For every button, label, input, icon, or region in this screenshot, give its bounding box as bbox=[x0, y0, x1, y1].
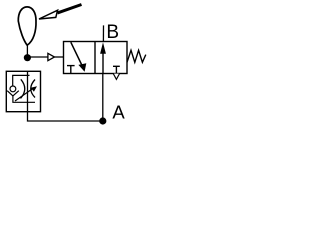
wire A from valve bottom to node A bbox=[102, 74, 104, 122]
check valve ball bbox=[10, 86, 16, 92]
node A junction dot bbox=[99, 117, 106, 124]
check-valve bypass branch top edge bbox=[13, 75, 30, 86]
valve V1 3/2-way body bbox=[64, 42, 128, 74]
annotation arrow shaft bbox=[58, 5, 82, 13]
svg-text:B: B bbox=[106, 22, 119, 43]
wire B from valve top bbox=[102, 25, 104, 41]
wire from balloon down to junction bbox=[26, 44, 28, 58]
throttle adjustment arrow bbox=[15, 86, 37, 101]
one-way flow control valve outer box bbox=[6, 71, 40, 111]
pneumatic pilot triangle bbox=[48, 53, 55, 60]
balloon (egg-shaped component) bbox=[18, 7, 36, 45]
return spring bbox=[127, 50, 146, 62]
main flow line through box bbox=[27, 71, 29, 111]
bypass branch bottom edge bbox=[13, 96, 35, 102]
annotation arrow open head bbox=[39, 10, 58, 19]
svg-text:A: A bbox=[112, 101, 125, 122]
junction dot bbox=[24, 54, 31, 61]
right position: blocked exhaust port T bbox=[113, 66, 120, 73]
throttle right arc bbox=[31, 80, 35, 98]
left position: blocked port T bbox=[67, 66, 75, 74]
exhaust triangle below valve bbox=[113, 74, 119, 80]
throttle left arc bbox=[21, 79, 25, 98]
check valve seat bbox=[7, 91, 19, 96]
left position: diagonal flow path arrow bbox=[71, 42, 87, 72]
wire from box bottom to node A bbox=[28, 112, 103, 121]
wire from pilot triangle to valve bbox=[55, 56, 64, 58]
right position: vertical flow path arrow up bbox=[100, 42, 106, 73]
pilot wire from junction to triangle bbox=[27, 56, 48, 58]
